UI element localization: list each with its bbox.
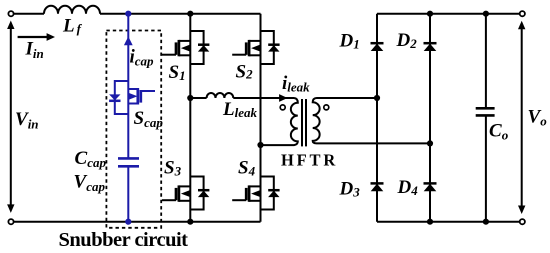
transformer secondary polarity dot	[324, 105, 329, 110]
wire: terminal to Lf	[14, 13, 44, 15]
junction node: secondary top / leg A	[374, 95, 380, 101]
junction node: right leg midpoint / primary return (node B)	[257, 142, 263, 148]
wire: snubber branch lower segment (blue)	[127, 167, 129, 222]
junction node: left leg midpoint (node A)	[187, 95, 193, 101]
diode D3	[371, 183, 384, 191]
output terminal top-right (+)	[520, 11, 525, 16]
junction node: top rail / Co	[483, 11, 489, 17]
wire: bridge right leg (S2/S4)	[260, 14, 262, 222]
junction node: bottom rail / Co	[483, 219, 489, 225]
junction node: snubber / bottom rail (blue)	[125, 219, 131, 225]
wire: secondary top lead to rectifier leg A	[317, 97, 378, 99]
current arrow ileak	[279, 94, 287, 102]
diode D2	[424, 43, 437, 51]
junction node: snubber / top rail (blue)	[125, 11, 131, 17]
snubber circuit dashed boundary box	[106, 31, 161, 228]
wire: top rail from Lf to bridge right leg	[100, 13, 261, 15]
transistor S2 (MOSFET with body diode)	[232, 31, 279, 64]
junction node: bottom rail / left leg	[187, 219, 193, 225]
junction node: top rail / leg B	[427, 11, 433, 17]
capacitor Ccap	[118, 157, 139, 160]
transformer HFTR primary winding	[261, 98, 298, 145]
diode D4	[424, 183, 437, 191]
output terminal bottom-right (-)	[520, 219, 525, 224]
wire: output bottom rail	[377, 221, 520, 223]
transistor Scap MOSFET symbol	[128, 88, 138, 90]
diode D1	[371, 43, 384, 51]
wire: snubber branch upper segment (blue)	[127, 14, 129, 158]
wire: left leg midpoint to Lleak	[190, 97, 206, 99]
transistor Scap body diode	[109, 100, 120, 103]
wire: Lleak to transformer primary (crosses right leg)	[233, 97, 294, 99]
capacitor Co	[485, 14, 487, 108]
inductor Lf	[44, 6, 100, 14]
inductor Lleak	[207, 93, 234, 98]
transistor S3 (MOSFET with body diode)	[162, 177, 209, 210]
current arrow icap	[124, 37, 133, 46]
transistor Scap body-diode branch wire	[115, 81, 129, 114]
current arrow Iin	[18, 36, 48, 38]
junction node: bottom rail / leg B	[427, 219, 433, 225]
transformer core	[301, 99, 303, 146]
wire: bridge left leg (S1/S3)	[189, 14, 191, 222]
wire: rectifier leg B (D2/D4)	[429, 14, 431, 222]
voltage arrow Vo (double-headed)	[521, 27, 523, 208]
wire: output top rail	[377, 13, 520, 15]
wire: rectifier leg A (D1/D3)	[376, 14, 378, 222]
junction node: top rail / left leg	[187, 11, 193, 17]
input terminal top-left (+)	[8, 11, 13, 16]
svg-text:Snubber circuit: Snubber circuit	[59, 229, 189, 251]
transformer HFTR secondary winding	[313, 98, 430, 143]
input terminal bottom-left (-)	[8, 219, 13, 224]
transistor S4 (MOSFET with body diode)	[232, 177, 279, 210]
svg-text:HFTR: HFTR	[281, 150, 338, 169]
junction node: secondary bottom / leg B	[427, 140, 433, 146]
transformer primary polarity dot	[280, 105, 285, 110]
wire: bottom rail input side	[14, 221, 261, 223]
transistor S1 (MOSFET with body diode)	[162, 31, 209, 64]
voltage arrow Vin (double-headed)	[10, 27, 12, 206]
